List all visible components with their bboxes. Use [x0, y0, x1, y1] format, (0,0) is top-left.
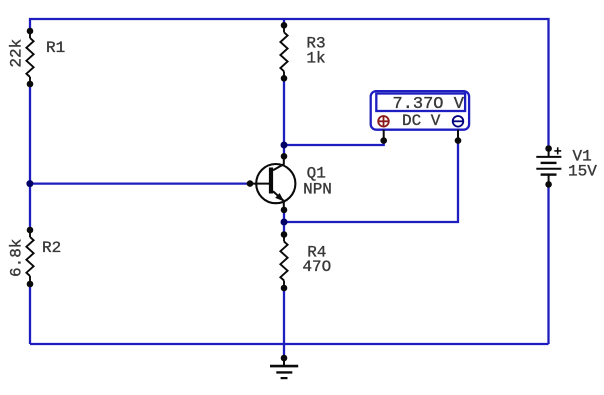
pin dot battery bottom	[545, 181, 552, 188]
label 470	[302, 258, 331, 276]
label R3	[306, 35, 325, 53]
label 6.8k (rotated)	[8, 239, 26, 277]
voltmeter U1	[371, 91, 469, 130]
label Q1	[307, 165, 326, 183]
label 1k	[306, 50, 325, 68]
transistor Q1	[250, 156, 295, 210]
pin dot collector Q1	[281, 153, 288, 160]
label R2	[42, 239, 61, 257]
wire R4 to bottom rail	[283, 288, 285, 344]
wire R3 to collector node	[283, 78, 285, 156]
svg-text:R1: R1	[46, 39, 65, 57]
resistor R4	[280, 235, 287, 289]
svg-text:47O: 47O	[302, 258, 331, 276]
pin dot ground	[281, 355, 288, 362]
battery V1	[536, 149, 561, 185]
svg-text:1k: 1k	[306, 50, 325, 68]
label R4	[307, 243, 326, 261]
pin dot emitter Q1	[281, 207, 288, 214]
wire left rail between R1 and R2	[29, 84, 31, 230]
node base junction on left rail	[26, 180, 33, 187]
resistor R2	[26, 230, 33, 284]
label 15V	[568, 163, 597, 181]
wire base from left rail	[30, 182, 250, 184]
svg-text:NPN: NPN	[303, 180, 332, 198]
wire bottom rail to ground	[283, 344, 285, 358]
svg-text:R2: R2	[42, 239, 61, 257]
wire top rail VCC	[30, 19, 549, 149]
pin dot base Q1	[247, 180, 254, 187]
wire emitter to R4	[283, 210, 285, 235]
wire collector node to voltmeter plus terminal	[284, 141, 384, 145]
wire left rail below R2 to bottom rail	[29, 284, 31, 344]
resistor R1	[26, 31, 33, 84]
resistor R3	[280, 25, 287, 78]
battery plus sign	[554, 147, 561, 154]
wire bottom rail	[30, 343, 549, 345]
label voltmeter reading 7.370 V	[393, 95, 465, 114]
svg-text:15V: 15V	[568, 163, 597, 181]
label V1	[573, 147, 592, 165]
node collector junction	[281, 142, 288, 149]
label 22k (rotated)	[8, 39, 26, 68]
label DC V	[402, 112, 441, 130]
pin dot battery top	[545, 145, 552, 152]
wire right rail below battery	[547, 185, 549, 345]
label R1	[46, 39, 65, 57]
pin voltmeter minus terminal	[455, 130, 462, 144]
label NPN	[303, 180, 332, 198]
wire top rail to R3	[283, 19, 285, 25]
voltmeter plus marker	[378, 116, 389, 127]
wire emitter node to voltmeter minus terminal	[284, 141, 458, 222]
pin voltmeter plus terminal	[380, 130, 387, 144]
node emitter junction	[281, 219, 288, 226]
svg-text:22k: 22k	[8, 39, 26, 68]
svg-text:DC V: DC V	[402, 112, 441, 130]
svg-text:6.8k: 6.8k	[8, 239, 26, 277]
voltmeter minus marker	[453, 116, 464, 127]
ground	[270, 358, 298, 378]
